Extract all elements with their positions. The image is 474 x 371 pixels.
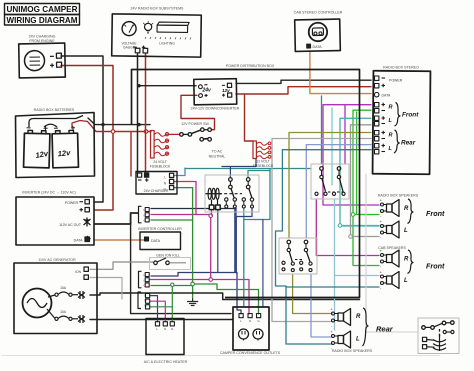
wire charger L steel blue bbox=[174, 168, 185, 176]
speaker radio front R bbox=[381, 200, 400, 217]
svg-text:24v: 24v bbox=[202, 88, 213, 94]
svg-text:INVERTER (24V DC → 110V AC): INVERTER (24V DC → 110V AC) bbox=[22, 191, 76, 195]
speaker radio front L bbox=[381, 221, 400, 238]
title box bbox=[5, 4, 80, 26]
wire lightblue rear L plus bbox=[306, 145, 371, 238]
wire darkteal cab L minus bbox=[286, 286, 379, 288]
svg-text:DATA: DATA bbox=[382, 94, 391, 98]
wire charging minus black bbox=[61, 56, 103, 202]
outlet sockets bbox=[239, 329, 249, 339]
svg-text:L: L bbox=[164, 176, 166, 180]
svg-text:RADIO BOX SPEAKERS: RADIO BOX SPEAKERS bbox=[378, 194, 419, 198]
svg-text:24V-12V DOWNCONVERTER: 24V-12V DOWNCONVERTER bbox=[191, 107, 240, 111]
battery B2 bbox=[52, 126, 79, 168]
12 volt fuseblock bbox=[253, 141, 271, 159]
svg-text:12v: 12v bbox=[57, 148, 71, 158]
svg-text:CAB STEREO CONTROLLER: CAB STEREO CONTROLLER bbox=[294, 11, 343, 15]
svg-text:Front: Front bbox=[402, 112, 419, 119]
light bar bbox=[157, 22, 189, 25]
radio box stereo main box bbox=[373, 71, 431, 174]
bracket front 1 bbox=[408, 199, 414, 224]
breaker branch 1 bbox=[48, 295, 55, 297]
wire teal front L plus and cab L plus bbox=[340, 118, 379, 226]
12V power switch SW2 bbox=[200, 138, 212, 142]
svg-text:N: N bbox=[249, 319, 251, 323]
svg-text:15A: 15A bbox=[60, 310, 67, 314]
wire inverter AC out black to block1 bbox=[95, 213, 138, 224]
svg-text:NEUTRAL: NEUTRAL bbox=[209, 155, 226, 159]
wire lavender box B to relay D bbox=[366, 174, 418, 332]
voltage gauge bbox=[122, 22, 136, 36]
wire magenta AC neutral net bbox=[151, 215, 211, 280]
relay A switch 1 bbox=[229, 178, 233, 182]
LNG block 3 bbox=[138, 292, 150, 309]
svg-text:RADIO BOX STEREO: RADIO BOX STEREO bbox=[383, 66, 419, 70]
speaker rear L bbox=[332, 331, 351, 348]
wire charger N magenta bbox=[174, 182, 196, 215]
svg-text:N: N bbox=[144, 299, 146, 303]
speaker rear R bbox=[332, 309, 351, 326]
wire 12V red main to stereo power plus bbox=[236, 87, 371, 94]
stereo front bracket bbox=[395, 103, 401, 127]
svg-text:RADIO BOX SPEAKERS: RADIO BOX SPEAKERS bbox=[332, 349, 373, 353]
wire subsystems minus down to charger bbox=[137, 54, 139, 173]
wire gray front L minus bbox=[351, 125, 380, 237]
wire olive rear R plus bbox=[289, 133, 371, 239]
power distribution box outline bbox=[132, 70, 360, 298]
subsystems box 24V radio box subsystems bbox=[112, 14, 202, 57]
svg-text:110V AC OUT: 110V AC OUT bbox=[59, 223, 82, 227]
wire green AC ground net bbox=[174, 188, 193, 299]
wire navy feed box A left switch bbox=[222, 159, 256, 178]
wire light gray vertical mid bbox=[262, 220, 264, 308]
wire faint bottom AC run bbox=[2, 355, 440, 357]
wire magenta front R plus bbox=[323, 105, 379, 205]
svg-text:12v: 12v bbox=[222, 88, 230, 93]
svg-text:110V AC GENERATOR: 110V AC GENERATOR bbox=[38, 258, 76, 262]
wire red drop to 12V fuseblock bbox=[245, 94, 254, 141]
svg-text:L: L bbox=[404, 228, 408, 234]
wire subsystems plus down to charger bbox=[145, 54, 147, 173]
wire teal feed box A right switch bbox=[248, 171, 270, 178]
wire teal AC neutral long run bbox=[185, 168, 311, 170]
wire heater risers bbox=[150, 296, 158, 322]
svg-text:A/C & ELECTRIC HEATER: A/C & ELECTRIC HEATER bbox=[144, 360, 188, 364]
wire navy box A bottoms bbox=[234, 208, 236, 273]
ground symbol bbox=[188, 299, 198, 306]
stereo terminals column bbox=[375, 76, 386, 154]
wire green front R minus and cab R minus bbox=[353, 110, 379, 265]
bracket front 2 bbox=[408, 250, 414, 274]
svg-text:POWER: POWER bbox=[65, 201, 79, 205]
wire battery plus bus red bbox=[88, 122, 151, 132]
node battery plus junctions bbox=[111, 130, 115, 134]
wire cyan vertical bbox=[331, 108, 333, 185]
relay A coil bbox=[208, 188, 211, 199]
svg-text:TO AC: TO AC bbox=[212, 150, 223, 154]
wire gen out2 black bbox=[90, 319, 233, 321]
wire red fuse1 to switch bbox=[169, 133, 180, 135]
svg-text:DATA: DATA bbox=[313, 45, 323, 49]
svg-text:ION: ION bbox=[75, 270, 81, 274]
svg-text:Front: Front bbox=[426, 209, 445, 218]
wire magenta relay coil stub bbox=[211, 210, 213, 215]
downconverter box bbox=[194, 79, 237, 105]
svg-text:Rear: Rear bbox=[401, 140, 416, 147]
wire magenta feed box B right bbox=[344, 105, 346, 164]
wire darkteal rear L minus bbox=[276, 150, 372, 344]
svg-text:GAUGE: GAUGE bbox=[123, 45, 136, 49]
battery B1 bbox=[24, 126, 51, 168]
wire red loop downconverter plus to switch bbox=[181, 95, 215, 129]
inverter box bbox=[16, 197, 94, 245]
wire gray rear R minus bbox=[272, 139, 371, 322]
svg-text:24V RADIO BOX SUBSYSTEMS: 24V RADIO BOX SUBSYSTEMS bbox=[131, 7, 185, 11]
relay box C bbox=[279, 238, 317, 274]
inverter AC out plug bbox=[84, 218, 91, 227]
24V charger box bbox=[136, 172, 177, 195]
svg-text:Rear: Rear bbox=[376, 325, 394, 334]
relay box D transfer relay bbox=[418, 318, 459, 354]
speaker cab R bbox=[381, 250, 400, 267]
bracket rear bbox=[363, 308, 369, 346]
svg-text:UNIMOG CAMPER: UNIMOG CAMPER bbox=[7, 5, 78, 14]
subsystem terminals bbox=[133, 46, 136, 48]
wire teal bend to relay A bbox=[244, 169, 270, 308]
relay A dashed link bbox=[219, 193, 242, 195]
light bulb bbox=[144, 23, 151, 30]
relay A switch 2 bbox=[246, 178, 250, 182]
batteries box radio box batteries bbox=[16, 113, 95, 178]
LNG block 2 bbox=[139, 271, 150, 288]
svg-text:DATA: DATA bbox=[151, 239, 161, 243]
svg-text:R: R bbox=[389, 133, 393, 139]
svg-text:R: R bbox=[389, 105, 393, 111]
12V power switch SW1 bbox=[180, 128, 212, 136]
svg-text:POWER DISTRIBUTION BOX: POWER DISTRIBUTION BOX bbox=[226, 64, 275, 68]
relay box B bbox=[311, 164, 349, 199]
svg-text:R: R bbox=[404, 206, 409, 212]
alternator box 24V charging from engine bbox=[19, 43, 66, 78]
wire magenta cab R plus from box B bbox=[316, 199, 379, 256]
svg-text:N: N bbox=[144, 213, 146, 217]
wire black to downconverter 24v minus bbox=[139, 85, 196, 87]
svg-text:15A: 15A bbox=[60, 286, 67, 290]
svg-text:L: L bbox=[404, 278, 408, 284]
svg-text:LIGHTING: LIGHTING bbox=[159, 42, 175, 46]
svg-text:RADIO BOX BATTERIES: RADIO BOX BATTERIES bbox=[34, 108, 75, 112]
battery series link bbox=[44, 124, 57, 127]
wire block1 L black bbox=[151, 208, 236, 210]
wire charging plus red bbox=[61, 66, 113, 211]
svg-text:GEN ION KILL: GEN ION KILL bbox=[156, 254, 180, 258]
node battery minus junction bbox=[101, 123, 104, 126]
svg-text:Front: Front bbox=[426, 262, 445, 271]
24 volt fuseblock bbox=[151, 131, 169, 159]
svg-text:FUSEBLOCK: FUSEBLOCK bbox=[253, 164, 274, 168]
gen ion kill switch bbox=[150, 258, 191, 270]
wire orange inverter data to controller bbox=[94, 239, 146, 241]
inverter data icon bbox=[85, 236, 91, 242]
speaker plus minus marks bbox=[331, 198, 383, 351]
svg-text:L: L bbox=[356, 337, 360, 343]
svg-text:CAMPER CONVENIENCE OUTLETS: CAMPER CONVENIENCE OUTLETS bbox=[220, 351, 281, 355]
stereo rear bracket bbox=[394, 130, 399, 153]
inverter controller box bbox=[140, 232, 181, 250]
speaker cab L bbox=[381, 272, 400, 289]
svg-text:R: R bbox=[404, 257, 409, 263]
svg-text:INVERTER CONTROLLER: INVERTER CONTROLLER bbox=[138, 227, 182, 231]
wire navy AC hot down to outlets L bbox=[235, 209, 237, 273]
svg-text:FUSEBLOCK: FUSEBLOCK bbox=[150, 164, 171, 168]
relay box A bbox=[205, 175, 259, 212]
wire orange cab controller data to stereo bbox=[310, 51, 371, 94]
generator sine circle bbox=[23, 289, 52, 318]
AC electric heater box bbox=[146, 319, 184, 355]
svg-text:FROM ENGINE: FROM ENGINE bbox=[29, 39, 55, 43]
svg-text:R: R bbox=[356, 314, 361, 320]
camper outlets box bbox=[233, 307, 269, 350]
wire battery minus bus black bbox=[88, 118, 150, 125]
svg-text:DATA: DATA bbox=[74, 239, 83, 243]
svg-text:N: N bbox=[164, 327, 166, 331]
svg-text:12V POWER SW: 12V POWER SW bbox=[181, 122, 209, 126]
cab stereo controller box bbox=[295, 19, 341, 51]
svg-text:WIRING DIAGRAM: WIRING DIAGRAM bbox=[7, 16, 78, 25]
wire gen out1 black long bbox=[90, 293, 360, 300]
generator box bbox=[14, 263, 97, 334]
LNG block 1 bbox=[139, 206, 150, 223]
wire gen ion kill gray bbox=[90, 262, 153, 269]
svg-text:CAB SPEAKERS: CAB SPEAKERS bbox=[378, 246, 406, 250]
svg-text:N: N bbox=[144, 278, 146, 282]
wire teal feed box B bbox=[321, 96, 323, 164]
breaker branch 2 bbox=[47, 309, 55, 319]
wire black 12V to stereo power minus bbox=[236, 80, 371, 83]
svg-text:POWER: POWER bbox=[389, 79, 403, 83]
